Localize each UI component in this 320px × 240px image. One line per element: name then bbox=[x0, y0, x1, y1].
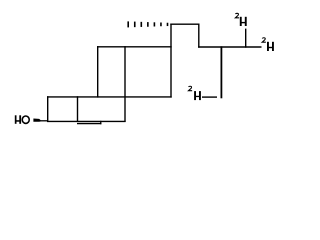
wire: ring A left edge (x=47.7) bbox=[47, 96, 49, 122]
label 2H top (deuterium): superscript 2 bbox=[235, 13, 239, 17]
wire: ring A/B bottom edge (horizontal y=121.3) bbox=[47, 120, 126, 122]
label 2H bottom (deuterium): superscript 2 bbox=[188, 86, 192, 90]
wire: ring C/D top edge (horizontal y=46.8) bbox=[97, 46, 172, 48]
wire: side chain lower horizontal y=47 to terminal deuterium bbox=[198, 46, 261, 48]
wire: ring A/B top edge + ring C/D bottom edge (long horizontal y=96.9) bbox=[47, 96, 172, 98]
wire: ring D right edge + C17-C20 bond (x=171) bbox=[170, 24, 172, 98]
wedge bond C3-OH (solid wedge, wide at O) bbox=[33, 119, 40, 122]
wire: side chain C20-C22 top horizontal y=24.2 bbox=[170, 23, 199, 25]
label 2H right (deuterium): superscript 2 bbox=[262, 38, 266, 42]
double bond C5=C6 inner line bbox=[77, 121, 101, 125]
wire: side chain C22-C23 vertical (x=198.8) bbox=[198, 24, 200, 48]
label HO (hydroxyl): letter H drawn as strokes bbox=[15, 115, 21, 124]
label 2H right: letter H drawn as strokes bbox=[267, 42, 274, 51]
wire: bond up to top 2H label (x=245.7) bbox=[245, 29, 247, 48]
wire: bond from bottom 2H label to chain vertical (y=97.3) bbox=[202, 96, 217, 98]
label HO: letter O drawn as ellipse ring bbox=[22, 116, 29, 123]
label 2H top: letter H drawn as strokes bbox=[240, 17, 247, 26]
wire: ring A/B shared edge (x=77.5) bbox=[77, 96, 79, 122]
wire: ring C left edge (x=97.7) bbox=[97, 46, 99, 98]
wire: chain vertical down to CD position (x=221.4) bbox=[220, 46, 222, 98]
label 2H bottom: letter H drawn as strokes bbox=[194, 91, 201, 100]
wire: ring C/D shared edge (x=125) bbox=[124, 46, 126, 122]
hashed bond C20-C21 methyl (7 ticks, tapering) bbox=[127, 21, 168, 27]
double bond right-end connector bbox=[100, 121, 101, 125]
